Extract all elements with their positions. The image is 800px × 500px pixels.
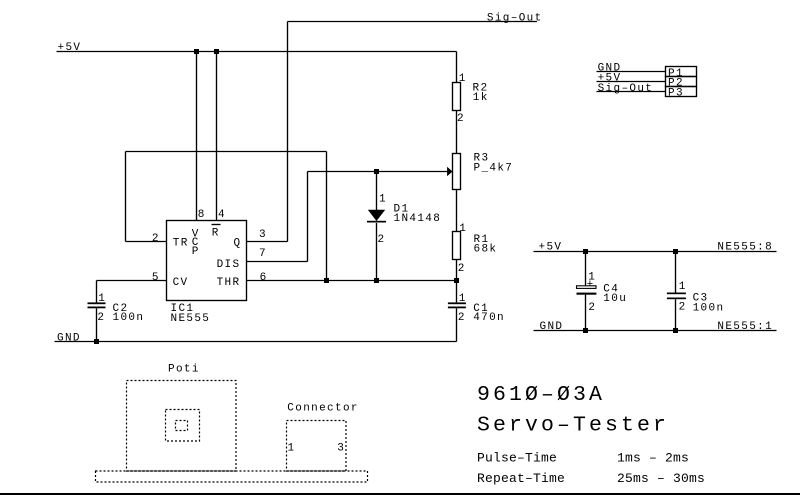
junction pin8/+5V [194,49,199,54]
poti shaft box [176,421,188,431]
wire DIS riser [307,172,309,262]
poti outline dashed box [127,381,237,472]
svg-text:1: 1 [459,293,467,305]
svg-text:1: 1 [98,293,106,305]
junction THR/D1 [374,278,379,283]
wire bypass GND rail [534,330,777,332]
svg-text:GND: GND [57,332,81,344]
bottom border line [0,493,800,495]
wire +5V to R2 [456,52,458,84]
connector pin P3 [666,87,697,97]
wire R2-R3 [456,111,458,154]
svg-text:961Ø–Ø3A: 961Ø–Ø3A [477,383,605,407]
svg-text:100n: 100n [113,312,145,324]
svg-text:10u: 10u [603,293,627,305]
svg-text:Sig–Out: Sig–Out [598,83,654,95]
junction pin4/+5V [214,49,219,54]
svg-text:P_4k7: P_4k7 [474,162,514,174]
wire GND rail [55,341,457,343]
capacitor C4 polarized [585,252,587,287]
capacitor C2 [96,281,98,303]
resistor R2 [453,83,461,111]
diode D1 1N4148 [376,172,378,211]
junction C3 top [673,249,678,254]
connector pin P1 [666,67,697,77]
svg-text:1ms – 2ms: 1ms – 2ms [617,450,689,465]
svg-text:P: P [192,246,200,258]
junction THR/C1 [454,278,459,283]
connector dashed box [287,421,347,472]
svg-text:68k: 68k [474,243,498,255]
svg-text:Poti: Poti [168,364,200,376]
svg-text:GND: GND [540,321,564,333]
svg-text:P3: P3 [668,87,684,99]
svg-text:Sig–Out: Sig–Out [487,12,543,24]
svg-text:Q: Q [234,238,242,250]
junction wiper/D1 [374,169,379,174]
wire THR run [247,280,457,282]
svg-text:2: 2 [152,233,160,245]
junction C4 top [583,249,588,254]
resistor R1 [453,232,461,260]
svg-text:8: 8 [198,209,206,221]
wire TR loop top [126,151,327,153]
ic IC1 NE555 box [167,221,247,301]
wire R3-R1 [456,190,458,232]
svg-text:Pulse–Time: Pulse–Time [477,450,557,465]
svg-text:1k: 1k [473,92,489,104]
junction THR/TR [324,278,329,283]
svg-text:THR: THR [217,277,241,289]
wire TR pin [126,241,167,243]
poti inner box [166,410,200,442]
wire TR loop right [326,152,328,281]
svg-text:2: 2 [97,312,105,324]
wire pin 4 riser [216,52,218,221]
wire wiper line [308,171,449,173]
capacitor C3 [675,252,677,293]
wire Q riser [287,22,289,242]
svg-text:CV: CV [173,277,189,289]
svg-text:1: 1 [459,73,467,85]
svg-text:NE555: NE555 [171,313,211,325]
svg-text:Servo–Tester: Servo–Tester [477,414,669,438]
svg-text:2: 2 [458,263,466,275]
svg-text:25ms – 30ms: 25ms – 30ms [617,471,705,486]
svg-text:5: 5 [152,272,160,284]
svg-text:4: 4 [218,209,226,221]
svg-text:7: 7 [259,248,267,260]
wire DIS pin [247,261,308,263]
svg-text:2: 2 [458,312,466,324]
svg-text:100n: 100n [693,303,725,315]
svg-text:2: 2 [588,302,596,314]
svg-text:2: 2 [679,302,687,314]
wire +5V rail [57,51,457,53]
capacitor C1 [456,281,458,303]
svg-text:6: 6 [260,272,268,284]
svg-text:3: 3 [259,229,267,241]
svg-text:1: 1 [379,194,387,206]
svg-text:2: 2 [378,234,386,246]
wire Sig-Out rail [288,21,538,23]
junction C3 bottom [673,328,678,333]
wire TR loop left [125,152,127,242]
wire Q pin [247,241,288,243]
R3 wiper arrowhead [447,167,452,176]
svg-text:NE555:1: NE555:1 [717,321,773,333]
wire pin 8 riser [196,52,198,221]
svg-text:1N4148: 1N4148 [394,213,442,225]
svg-text:1: 1 [679,281,687,293]
svg-text:TR: TR [173,238,189,250]
svg-text:Connector: Connector [287,403,359,415]
svg-text:470n: 470n [473,312,505,324]
connector pin P2 [666,77,697,87]
svg-text:1: 1 [459,223,467,235]
potentiometer R3 [453,154,461,190]
svg-text:+: + [587,279,595,291]
svg-text:2: 2 [457,113,465,125]
board strip dashed [96,471,368,482]
junction C4 bottom [583,328,588,333]
wire CV pin [97,280,167,282]
junction GND/C2 [94,339,99,344]
svg-text:1: 1 [288,443,296,455]
svg-text:Repeat–Time: Repeat–Time [477,471,565,486]
wire bypass +5V rail [534,251,777,253]
svg-text:3: 3 [337,443,345,455]
wire R1 bottom [456,260,458,281]
svg-text:R: R [212,227,220,239]
svg-text:DIS: DIS [217,259,241,271]
